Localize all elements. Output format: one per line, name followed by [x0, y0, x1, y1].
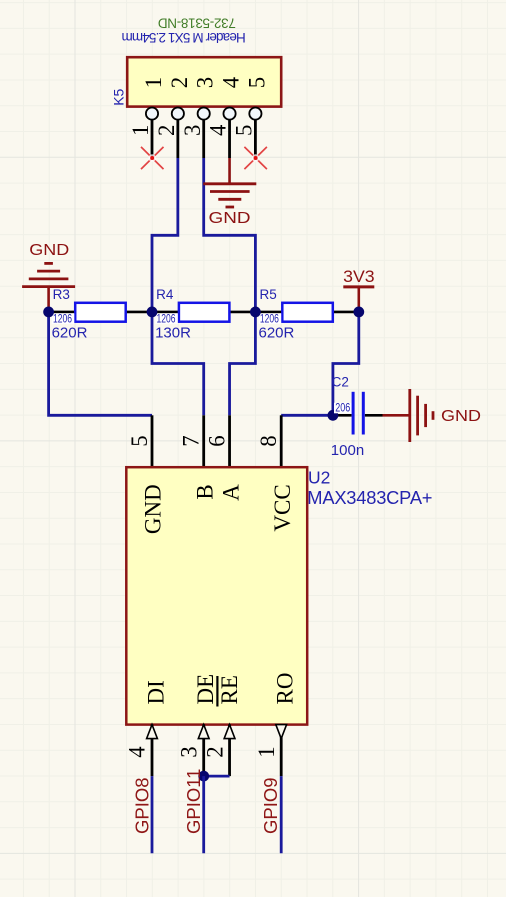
- svg-text:5: 5: [244, 77, 269, 88]
- wire GPIO9: [280, 776, 283, 853]
- junction pin2/pin3: [198, 771, 209, 782]
- U2 pin name DE: [193, 674, 218, 705]
- U2 pin 7 number: [179, 435, 204, 446]
- svg-text:2: 2: [167, 77, 192, 88]
- svg-text:GND: GND: [141, 484, 166, 534]
- header pin 1 stub: [151, 120, 154, 158]
- no-connect X on pin 1: [141, 147, 164, 169]
- svg-text:3: 3: [193, 77, 218, 88]
- resistor R4 body: [179, 303, 230, 322]
- U2 pin 6 number: [205, 435, 230, 446]
- U2 pin name A: [218, 484, 243, 501]
- capacitor C2 designator: [332, 375, 349, 390]
- resistor R3 footprint 1206: [52, 313, 75, 325]
- svg-text:GPIO8: GPIO8: [131, 777, 152, 834]
- svg-text:GPIO11: GPIO11: [183, 769, 204, 834]
- header pin 4 number (below): [206, 124, 231, 136]
- svg-text:MAX3483CPA+: MAX3483CPA+: [307, 487, 432, 508]
- svg-text:B: B: [192, 484, 217, 499]
- svg-text:3: 3: [176, 746, 201, 757]
- svg-text:3: 3: [180, 125, 205, 136]
- U2 pin 4 input arrow: [147, 725, 158, 739]
- U2 pin 8 number: [256, 435, 281, 446]
- svg-text:4: 4: [206, 124, 231, 136]
- U2 pin 4 stub: [151, 724, 154, 776]
- header K5 body: [127, 57, 281, 106]
- svg-text:Header M 5X1 2.54mm: Header M 5X1 2.54mm: [122, 30, 246, 45]
- resistor R5 body: [282, 303, 333, 322]
- svg-text:2: 2: [154, 125, 179, 136]
- wire U2 pin 8 to C2 node: [281, 414, 333, 417]
- resistor R5 footprint 1206: [259, 313, 282, 325]
- svg-text:R3: R3: [53, 287, 70, 302]
- U2 pin name B: [192, 484, 217, 499]
- U2 pin 5 stub: [151, 415, 154, 467]
- net label GPIO9: [260, 777, 281, 834]
- U2 part number MAX3483CPA+: [307, 487, 432, 508]
- U2 pin name VCC: [270, 484, 295, 531]
- svg-text:1: 1: [254, 746, 279, 757]
- junction node A: [43, 307, 54, 318]
- header pin 2 stub: [176, 120, 179, 158]
- svg-text:GND: GND: [441, 408, 481, 425]
- resistor R4 designator: [156, 287, 174, 302]
- U2 pin 2 input arrow: [224, 725, 235, 739]
- resistor R4 value 130R: [155, 324, 191, 341]
- resistor R5 designator: [260, 287, 277, 302]
- header pin 1 terminal circle: [146, 108, 158, 120]
- U2 pin 1 output arrow: [276, 725, 287, 739]
- svg-text:U2: U2: [308, 467, 330, 487]
- U2 pin name RO: [273, 673, 298, 705]
- capacitor C2 pins: [333, 414, 383, 417]
- svg-text:R4: R4: [156, 287, 174, 302]
- header pin 3 terminal circle: [198, 108, 210, 120]
- resistor R3 designator: [53, 287, 70, 302]
- header comment Header M 5X1 2.54mm: [122, 30, 246, 45]
- U2 pin name GND: [141, 484, 166, 534]
- header pin 4 number (inside): [219, 76, 244, 88]
- svg-text:1: 1: [128, 125, 153, 136]
- U2 pin 3 input arrow: [198, 725, 209, 739]
- svg-text:5: 5: [232, 125, 257, 136]
- header pin 5 stub: [254, 120, 257, 158]
- U2 pin name RE with overline: [217, 675, 242, 706]
- wire U2 pin 2 to pin 3 net: [204, 775, 230, 778]
- svg-text:RO: RO: [273, 673, 298, 705]
- svg-text:620R: 620R: [52, 324, 88, 341]
- U2 pin 6 stub: [228, 415, 231, 467]
- svg-text:130R: 130R: [155, 324, 191, 341]
- junction node C: [250, 307, 261, 318]
- no-connect X on pin 5: [244, 147, 267, 169]
- header pin 3 number (inside): [193, 77, 218, 88]
- U2 pin 3 number: [176, 746, 201, 757]
- svg-text:5: 5: [127, 435, 152, 446]
- wire GPIO8: [151, 776, 154, 853]
- svg-text:R5: R5: [260, 287, 277, 302]
- svg-text:GND: GND: [209, 210, 251, 227]
- net label GPIO8: [131, 777, 152, 834]
- header pin 3 stub: [202, 120, 205, 158]
- wire GPIO11: [202, 776, 205, 853]
- U2 pin 8 stub: [280, 415, 283, 467]
- U2 pin 5 number: [127, 435, 152, 446]
- wire node C down to U2 pin 6: [230, 312, 256, 415]
- svg-text:GND: GND: [29, 242, 69, 259]
- header K5 designator: [111, 88, 127, 105]
- resistor R5 value 620R: [259, 324, 295, 341]
- header pin 3 number (below): [180, 125, 205, 136]
- resistor R5 pins: [255, 311, 358, 314]
- header pin 2 number (below): [154, 125, 179, 136]
- svg-text:1: 1: [141, 77, 166, 88]
- U2 pin 2 number: [202, 746, 227, 757]
- U2 pin name DI: [143, 680, 168, 704]
- header part number 732-5318-ND: [158, 16, 236, 31]
- junction C2 node: [328, 410, 339, 421]
- U2 body MAX3483: [126, 467, 307, 724]
- power port GND above R3 (inverted): [22, 242, 75, 312]
- svg-text:DE: DE: [193, 674, 218, 705]
- svg-text:8: 8: [256, 435, 281, 446]
- wire pin2 to node B: [152, 158, 178, 312]
- svg-text:732-5318-ND: 732-5318-ND: [158, 16, 236, 31]
- wire node B down to U2 pin 7: [152, 312, 204, 415]
- header pin 1 number (below): [128, 125, 153, 136]
- svg-text:DI: DI: [143, 680, 168, 704]
- power port GND right of C2 (rotated): [383, 389, 482, 442]
- svg-text:7: 7: [179, 435, 204, 446]
- U2 pin 1 number: [254, 746, 279, 757]
- header pin 4 terminal circle: [223, 108, 235, 120]
- svg-text:4: 4: [219, 76, 244, 88]
- U2 pin 4 number: [125, 746, 150, 758]
- net label GPIO11: [183, 769, 204, 834]
- wire pin3 to node C: [204, 158, 256, 312]
- wire node A down to bus: [49, 312, 152, 415]
- U2 pin 1 stub: [280, 724, 283, 776]
- wire node D down to C2 node: [333, 312, 359, 415]
- power port 3V3: [343, 268, 375, 312]
- power port GND at header pin 4: [203, 158, 256, 227]
- header pin 2 terminal circle: [172, 108, 184, 120]
- header pin 5 number (below): [232, 125, 257, 136]
- U2 pin 7 stub: [202, 415, 205, 467]
- svg-text:206: 206: [335, 403, 350, 415]
- svg-text:6: 6: [205, 435, 230, 446]
- header pin 2 number (inside): [167, 77, 192, 88]
- capacitor C2 value 100n: [331, 442, 364, 459]
- resistor R4 footprint 1206: [155, 313, 178, 325]
- svg-text:A: A: [218, 484, 243, 501]
- header pin 5 terminal circle: [249, 108, 261, 120]
- svg-text:VCC: VCC: [270, 484, 295, 531]
- svg-text:RE: RE: [217, 675, 242, 704]
- resistor R3 pins: [49, 311, 152, 314]
- svg-text:620R: 620R: [259, 324, 295, 341]
- header pin 1 number (inside): [141, 77, 166, 88]
- svg-text:100n: 100n: [331, 442, 364, 459]
- junction node B: [147, 307, 158, 318]
- svg-text:4: 4: [125, 746, 150, 758]
- svg-text:GPIO9: GPIO9: [260, 777, 281, 834]
- svg-text:3V3: 3V3: [343, 268, 375, 286]
- resistor R3 body: [75, 303, 126, 322]
- svg-text:2: 2: [202, 746, 227, 757]
- U2 pin 2 stub: [228, 724, 231, 776]
- capacitor C2 plates: [353, 392, 363, 435]
- capacitor C2 footprint 206: [334, 403, 352, 415]
- svg-text:K5: K5: [111, 88, 127, 105]
- header pin 4 stub: [228, 120, 231, 158]
- U2 designator: [308, 467, 330, 487]
- U2 pin 3 stub: [202, 724, 205, 776]
- resistor R4 pins: [152, 311, 255, 314]
- junction node D: [353, 307, 364, 318]
- header pin 5 number (inside): [244, 77, 269, 88]
- svg-text:C2: C2: [332, 375, 349, 390]
- resistor R3 value 620R: [52, 324, 88, 341]
